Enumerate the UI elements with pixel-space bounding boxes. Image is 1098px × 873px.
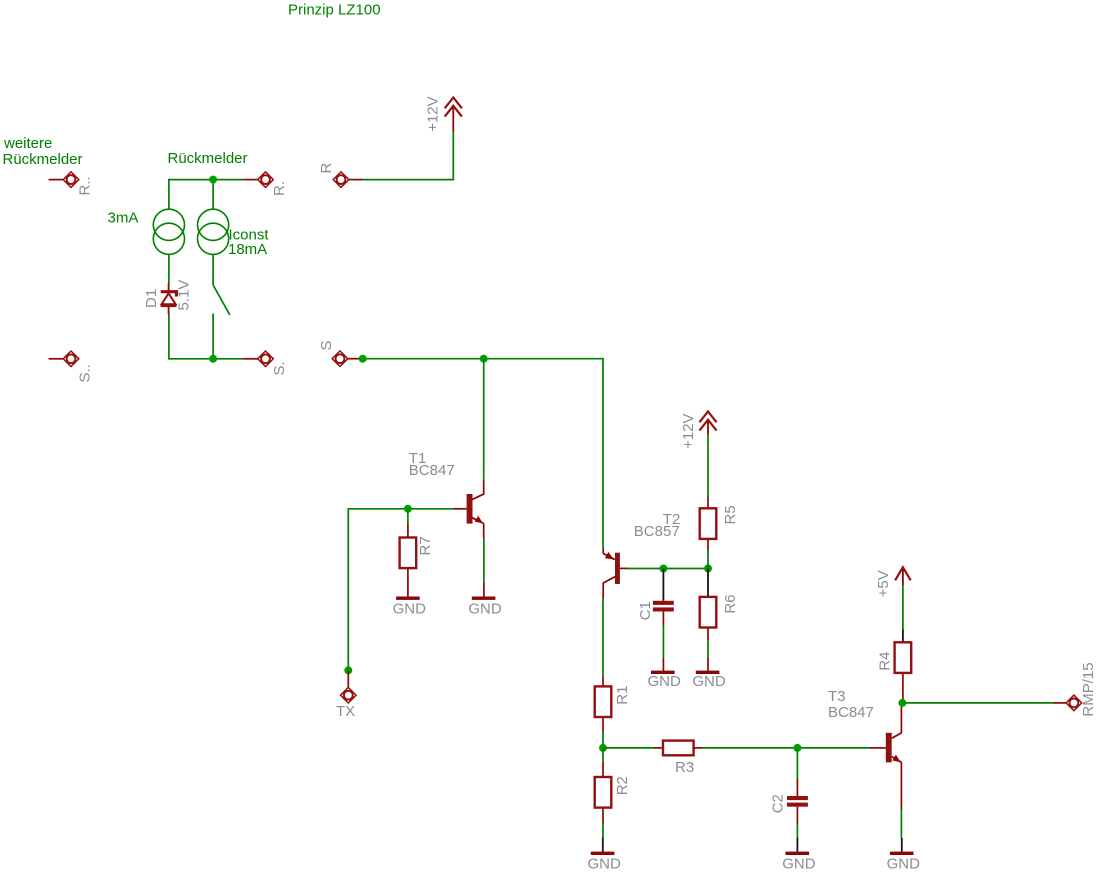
- svg-text:R5: R5: [722, 505, 739, 524]
- svg-text:R1: R1: [614, 686, 631, 705]
- svg-text:R6: R6: [722, 594, 739, 613]
- svg-text:R: R: [318, 163, 335, 174]
- svg-text:BC847: BC847: [409, 462, 455, 479]
- power +12V (top): [424, 96, 462, 131]
- wire to pad RMP/15: [902, 702, 1053, 704]
- transistor T1 BC847: [453, 479, 484, 538]
- svg-text:GND: GND: [393, 601, 427, 618]
- wire +5V to R4: [902, 585, 904, 630]
- wire S main: [363, 358, 603, 360]
- ground GND (T1 emitter): [468, 583, 502, 618]
- transistor T3 BC847: [870, 703, 901, 810]
- pad R (to +12V): [318, 163, 364, 188]
- svg-text:R..: R..: [77, 176, 94, 195]
- svg-text:18mA: 18mA: [228, 241, 267, 258]
- junction R5/R6: [704, 565, 712, 573]
- wire T2 base: [627, 568, 708, 570]
- junction S/T1 collector: [480, 355, 488, 363]
- wire top Rückmelder: [169, 179, 243, 181]
- svg-text:Rückmelder: Rückmelder: [3, 151, 83, 168]
- svg-text:S..: S..: [77, 364, 94, 382]
- capacitor C1: [637, 569, 674, 672]
- ground GND (R7): [393, 597, 427, 618]
- ground GND (R6): [692, 671, 726, 691]
- resistor R1: [595, 677, 631, 748]
- svg-text:weitere: weitere: [3, 135, 52, 152]
- svg-text:D1: D1: [143, 289, 160, 308]
- junction near pad S: [359, 355, 367, 363]
- junction bottom: [209, 355, 217, 363]
- svg-text:GND: GND: [887, 855, 921, 872]
- wire S corner down to T2 emitter: [602, 358, 604, 548]
- svg-text:GND: GND: [782, 855, 816, 872]
- svg-text:C1: C1: [637, 601, 654, 620]
- svg-text:Rückmelder: Rückmelder: [168, 150, 248, 167]
- pad R.. (weitere Rückmelder top): [49, 172, 94, 196]
- resistor R4: [877, 630, 912, 704]
- svg-text:5.1V: 5.1V: [176, 280, 193, 311]
- current source G1 3mA: [153, 209, 184, 254]
- wire R3 row: [603, 747, 655, 749]
- ground GND (R2): [588, 838, 622, 873]
- svg-text:R2: R2: [614, 776, 631, 795]
- wire T1 emitter: [483, 538, 485, 584]
- capacitor C2: [770, 748, 808, 839]
- junction R1/R2/R3: [599, 744, 607, 752]
- power +12V (above R5): [680, 412, 717, 449]
- junction C2: [793, 744, 801, 752]
- svg-text:+12V: +12V: [424, 96, 441, 131]
- svg-text:+12V: +12V: [680, 413, 697, 448]
- svg-text:GND: GND: [468, 601, 502, 618]
- junction top: [209, 176, 217, 184]
- ground GND (T3): [887, 838, 921, 872]
- transistor T2 BC857: [603, 548, 628, 599]
- svg-text:GND: GND: [648, 673, 682, 690]
- junction C1: [659, 565, 667, 573]
- wire T1 base: [348, 509, 453, 671]
- svg-text:R7: R7: [417, 536, 434, 555]
- diode D1 zener 5.1V: [143, 280, 193, 315]
- resistor R3: [654, 741, 703, 776]
- wire right branch top: [212, 180, 214, 210]
- pad RMP/15: [1053, 662, 1097, 716]
- svg-text:RMP/15: RMP/15: [1080, 662, 1097, 716]
- svg-text:TX: TX: [336, 703, 355, 720]
- resistor R7: [400, 509, 434, 597]
- svg-text:T3: T3: [828, 688, 846, 705]
- svg-text:R.: R.: [271, 181, 288, 196]
- svg-text:S: S: [318, 340, 335, 350]
- svg-text:C2: C2: [770, 794, 787, 813]
- svg-text:S.: S.: [271, 361, 288, 375]
- junction T1 base / R7: [404, 505, 412, 513]
- svg-text:R4: R4: [877, 652, 894, 671]
- wire pad R to +12V: [364, 131, 454, 179]
- pad R. (Rückmelder top right): [243, 172, 288, 196]
- pad S.. (weitere Rückmelder bottom): [49, 351, 94, 383]
- switch S1 (right branch): [213, 254, 230, 358]
- resistor R6: [700, 569, 740, 672]
- svg-text:BC847: BC847: [828, 704, 874, 721]
- svg-text:BC857: BC857: [634, 523, 680, 540]
- ground GND (C1): [648, 671, 682, 691]
- current source G2 Iconst 18mA: [198, 209, 229, 254]
- svg-text:Prinzip LZ100: Prinzip LZ100: [288, 2, 381, 19]
- wire left branch top: [168, 179, 170, 210]
- pad S (main input): [318, 340, 363, 366]
- svg-text:+5V: +5V: [875, 570, 892, 597]
- pad S. (Rückmelder bottom right): [243, 351, 288, 376]
- wire left CS to D1: [168, 254, 170, 284]
- pad TX: [336, 666, 356, 720]
- power +5V: [875, 567, 911, 597]
- resistor R5: [700, 497, 740, 569]
- svg-text:GND: GND: [692, 673, 726, 690]
- svg-text:GND: GND: [588, 855, 622, 872]
- junction T3 collector / R4 / RMP: [898, 699, 906, 707]
- wire R3 to T3 base: [702, 747, 870, 749]
- svg-text:R3: R3: [675, 759, 694, 776]
- wire T2 collector to R1: [602, 598, 604, 677]
- wire T3 emitter: [900, 810, 902, 839]
- resistor R2: [595, 748, 631, 838]
- svg-text:3mA: 3mA: [108, 210, 139, 227]
- ground GND (C2): [782, 838, 816, 872]
- wire D1 to bottom corner: [169, 315, 243, 359]
- wire S junction down to T1 collector: [483, 359, 485, 480]
- wire +12V to R5: [707, 435, 709, 498]
